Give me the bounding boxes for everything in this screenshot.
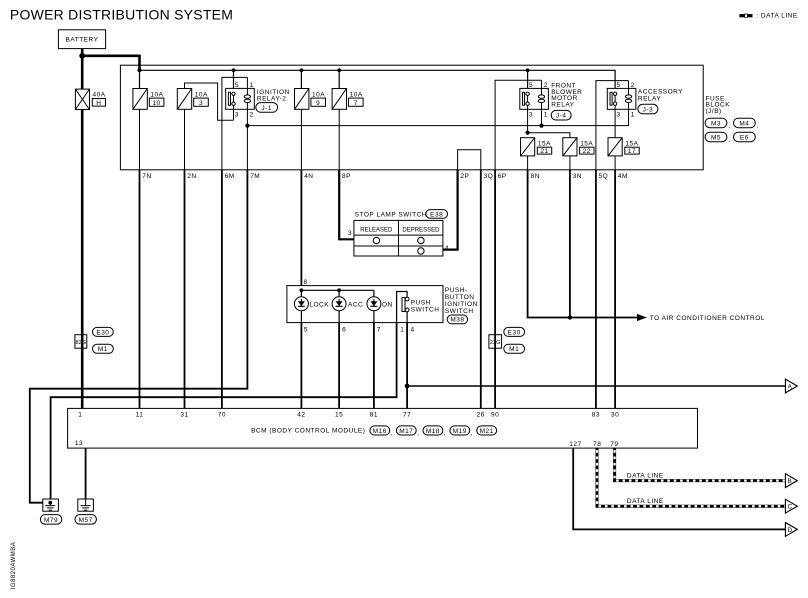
svg-text:10A: 10A	[150, 91, 163, 98]
svg-text:15A: 15A	[625, 140, 638, 147]
svg-text:SWITCH: SWITCH	[411, 307, 440, 314]
svg-text:IGNITION: IGNITION	[445, 301, 478, 308]
connector oval M18	[423, 426, 446, 437]
wire fuse 10 to 7N exit	[139, 109, 141, 170]
svg-text:STOP LAMP SWITCH: STOP LAMP SWITCH	[355, 211, 427, 218]
node pin 4 at arrow A line	[405, 384, 410, 389]
svg-text:3N: 3N	[573, 173, 582, 180]
svg-text:M1: M1	[98, 346, 108, 353]
svg-text:79: 79	[610, 441, 618, 448]
wire stop lamp pin 4 to 2P	[443, 170, 458, 250]
svg-text:M18: M18	[426, 428, 440, 435]
ground M79	[43, 499, 59, 511]
svg-text:7M: 7M	[250, 173, 260, 180]
connector oval M21	[477, 426, 497, 435]
svg-text:E30: E30	[508, 329, 521, 336]
svg-text:5: 5	[529, 82, 533, 89]
svg-text:M17: M17	[399, 428, 413, 435]
svg-text:J-4: J-4	[556, 113, 567, 120]
svg-text:1: 1	[250, 82, 254, 89]
wire bus drop to ignition relay pin 5	[233, 70, 235, 93]
svg-text:30: 30	[611, 412, 619, 419]
wire battery to BCM pin 1	[81, 110, 84, 409]
node blower relay pin 1 on control line	[539, 124, 543, 128]
svg-text:C: C	[788, 504, 793, 511]
svg-text:PUSH: PUSH	[411, 300, 431, 307]
node bus at fuse 7	[337, 68, 341, 72]
svg-text:1: 1	[400, 326, 404, 333]
connector oval M17	[396, 426, 419, 437]
svg-text:B: B	[788, 478, 792, 485]
wire fuse 22 to 3N exit	[569, 156, 571, 170]
svg-text:,: ,	[728, 137, 730, 144]
arrowhead C	[785, 499, 797, 513]
svg-text:E38: E38	[430, 211, 443, 218]
connector oval M4	[734, 118, 760, 129]
wire 3Q to BCM 26	[480, 170, 482, 409]
svg-text:SWITCH: SWITCH	[445, 308, 474, 315]
wire 4M to BCM 30	[614, 170, 616, 409]
label ignition relay-2	[257, 89, 290, 103]
svg-text:5: 5	[235, 82, 239, 89]
front blower motor relay coil jog to 6P	[495, 80, 541, 170]
svg-text:3: 3	[199, 100, 203, 107]
diode LOCK	[294, 290, 329, 322]
ignition relay-2 coil feed jog to 6M	[222, 77, 248, 169]
wire BCM 13 to ground M57	[85, 448, 87, 499]
wire bus drop to fuse 7	[338, 70, 340, 88]
svg-text:10A: 10A	[312, 91, 325, 98]
svg-text:2: 2	[250, 111, 254, 118]
svg-text:15A: 15A	[538, 140, 551, 147]
fuse 10A #7	[332, 89, 363, 110]
connector oval M1 (23G)	[504, 344, 525, 353]
label front blower motor relay	[551, 83, 582, 109]
svg-text:3: 3	[529, 111, 533, 118]
svg-text:(J/B): (J/B)	[706, 108, 722, 115]
svg-text:8N: 8N	[531, 173, 540, 180]
svg-text:5: 5	[304, 326, 308, 333]
svg-text:DATA LINE: DATA LINE	[627, 498, 664, 505]
wire fuse 9 to 4N exit	[300, 109, 302, 170]
svg-text:M79: M79	[44, 517, 58, 524]
svg-text:1: 1	[544, 111, 548, 118]
wire BCM 79 data line to connector B	[615, 448, 786, 481]
svg-text:8P: 8P	[342, 173, 351, 180]
svg-text:LOCK: LOCK	[309, 301, 329, 308]
node battery junction	[79, 53, 85, 59]
node ignition relay pin 2 on control line	[245, 124, 249, 128]
svg-text:DATA LINE: DATA LINE	[627, 472, 664, 479]
svg-text:ON: ON	[382, 301, 393, 308]
node bus at fuse 9	[300, 68, 304, 72]
svg-text:M21: M21	[480, 428, 494, 435]
node bus entry	[138, 68, 142, 72]
svg-text:,: ,	[471, 430, 473, 437]
wire pin 5 to BCM 42	[300, 323, 302, 409]
diode ON	[367, 290, 393, 322]
svg-text:15A: 15A	[580, 140, 593, 147]
arrowhead D	[785, 523, 797, 537]
svg-text:M3: M3	[711, 120, 721, 127]
svg-text:13: 13	[75, 440, 83, 447]
connector oval M57	[75, 515, 96, 525]
wire blower output jog to fuse 22	[528, 133, 570, 138]
wire 8N to A/C control line	[528, 170, 638, 318]
svg-text:BCM (BODY CONTROL MODULE): BCM (BODY CONTROL MODULE)	[251, 428, 365, 435]
svg-text:22: 22	[583, 148, 591, 155]
wire to connector A	[407, 385, 785, 387]
connector oval M3	[705, 118, 731, 129]
svg-text:M4: M4	[739, 120, 749, 127]
fuse 15A #21	[521, 138, 552, 156]
svg-text:DEPRESSED: DEPRESSED	[402, 228, 440, 234]
svg-text:BUTTON: BUTTON	[445, 294, 475, 301]
svg-text:83: 83	[592, 412, 600, 419]
connector oval J-1	[256, 103, 278, 113]
wire battery feed to bus	[82, 49, 139, 70]
svg-text:31: 31	[180, 412, 188, 419]
svg-text:M38: M38	[450, 317, 464, 324]
svg-text:2: 2	[544, 82, 548, 89]
svg-text:10A: 10A	[350, 91, 363, 98]
wire pin 4 to BCM 77	[406, 323, 408, 409]
wire 4N to push-button pin 8	[300, 170, 302, 286]
connector oval E30 (82G)	[93, 327, 114, 336]
svg-text:E6: E6	[740, 134, 749, 141]
svg-text:3Q: 3Q	[484, 173, 494, 180]
svg-text:4M: 4M	[618, 173, 628, 180]
fuse 10A #3	[177, 89, 208, 110]
svg-text:D: D	[788, 527, 793, 534]
wire fuse 3 feed jog from relay output	[185, 83, 234, 120]
wire pin 6 to BCM 15	[338, 323, 340, 409]
svg-text:4: 4	[445, 245, 449, 252]
svg-text:6M: 6M	[225, 173, 235, 180]
push-button ignition switch M38 box	[287, 286, 443, 323]
wire 6M to BCM 70	[221, 170, 223, 409]
stop lamp switch E38	[348, 210, 449, 256]
svg-text:6P: 6P	[498, 173, 507, 180]
wire bus drop to fuse 10	[139, 70, 141, 88]
node bus at blower relay pin 5	[526, 68, 530, 72]
ground M57	[78, 499, 94, 511]
op front blower motor relay body	[520, 80, 549, 133]
svg-text:RELAY-2: RELAY-2	[257, 96, 287, 103]
arrowhead to air conditioner control	[637, 314, 647, 321]
arrowhead B	[785, 474, 797, 488]
svg-text:3: 3	[348, 230, 352, 237]
svg-text:82G: 82G	[76, 340, 87, 346]
wire 3N to A/C junction	[569, 170, 571, 318]
svg-text:: DATA LINE: : DATA LINE	[756, 13, 798, 20]
connector oval M38	[447, 315, 467, 324]
accessory relay coil jog to 5Q	[596, 81, 629, 170]
wire 8P to stop lamp switch pin 3	[339, 170, 354, 240]
svg-text:,: ,	[391, 430, 393, 437]
wire 7M to ground run	[30, 170, 248, 503]
battery	[58, 30, 105, 49]
svg-text:H: H	[96, 100, 101, 107]
svg-text:11: 11	[136, 412, 144, 419]
wire fuse 17 to 4M exit	[614, 156, 616, 170]
fuse 15A #17	[608, 138, 639, 156]
svg-text:15: 15	[335, 412, 343, 419]
wire 6P to BCM 90	[494, 170, 496, 409]
svg-text:M1: M1	[509, 346, 519, 353]
svg-text:IG8820AWMBA: IG8820AWMBA	[11, 542, 17, 590]
svg-text:90: 90	[491, 412, 499, 419]
wire 7M exit stub	[246, 126, 248, 170]
svg-text:J-3: J-3	[643, 107, 654, 114]
op ignition relay-2 body	[226, 77, 255, 125]
svg-text:RELEASED: RELEASED	[360, 228, 393, 234]
fuse 15A #22	[563, 138, 594, 156]
svg-text:4: 4	[411, 326, 415, 333]
fuse block J/B outline	[120, 65, 703, 170]
svg-text:,: ,	[757, 123, 759, 130]
diode ACC	[332, 290, 363, 322]
fuse 10A #9	[295, 89, 326, 110]
BCM body control module box	[68, 408, 698, 448]
arrowhead A	[785, 379, 797, 393]
svg-text:BATTERY: BATTERY	[66, 37, 99, 44]
svg-text:9: 9	[316, 100, 320, 107]
svg-text:42: 42	[297, 412, 305, 419]
node bus at ignition relay pin 5	[232, 68, 236, 72]
svg-text:78: 78	[593, 441, 601, 448]
op accessory relay body	[607, 81, 636, 138]
node bus at ACC diode	[337, 288, 341, 292]
svg-text:81: 81	[370, 412, 378, 419]
svg-text:8: 8	[304, 279, 308, 286]
svg-text:40A: 40A	[93, 92, 106, 99]
wire battery down-feed	[81, 56, 84, 89]
svg-text:6: 6	[342, 326, 346, 333]
svg-text:77: 77	[403, 412, 411, 419]
label push-button ignition switch	[445, 287, 478, 315]
wire fuse 3 to 2N exit	[184, 109, 186, 170]
connector oval M16	[370, 426, 393, 437]
svg-text:J-1: J-1	[261, 105, 272, 112]
label accessory relay	[638, 89, 683, 103]
connector oval J-3	[638, 104, 658, 114]
wire pin 1 to ground run	[51, 323, 397, 503]
svg-text:1: 1	[631, 111, 635, 118]
svg-text:M57: M57	[79, 517, 93, 524]
svg-text:3: 3	[617, 111, 621, 118]
connector 82G	[75, 335, 87, 349]
svg-text:5: 5	[617, 82, 621, 89]
fusible link H 40A	[75, 89, 105, 109]
svg-text:E30: E30	[96, 329, 109, 336]
svg-text:21: 21	[540, 148, 548, 155]
wire pin 7 to BCM 81	[373, 323, 375, 409]
connector oval M5	[705, 132, 731, 143]
svg-text:,: ,	[417, 430, 419, 437]
wire fuse 21 to 8N exit	[527, 156, 529, 170]
wire fuse 7 to 8P exit	[338, 109, 340, 170]
svg-text:2: 2	[631, 82, 635, 89]
svg-text:1: 1	[78, 412, 82, 419]
wire bus drop to blower relay pin 5	[527, 70, 529, 93]
wire relay coil control line	[247, 103, 628, 126]
fuse 10A #10	[133, 89, 164, 110]
svg-text:RELAY: RELAY	[551, 101, 574, 108]
svg-text:,: ,	[728, 123, 730, 130]
svg-text:M19: M19	[453, 428, 467, 435]
connector oval M19	[450, 426, 473, 437]
connector oval J-4	[551, 110, 571, 120]
connector oval E30 (23G)	[504, 327, 525, 336]
svg-text:4N: 4N	[304, 173, 313, 180]
svg-text:17: 17	[628, 148, 636, 155]
connector oval M79	[40, 515, 61, 525]
wire BCM 127 to connector D	[573, 448, 785, 529]
svg-text:TO AIR CONDITIONER CONTROL: TO AIR CONDITIONER CONTROL	[650, 315, 765, 322]
bus bar from battery	[140, 70, 616, 93]
svg-text:ACC: ACC	[348, 301, 363, 308]
svg-text:127: 127	[569, 441, 581, 448]
svg-text:26: 26	[477, 412, 485, 419]
node 3N on A/C line	[568, 315, 572, 319]
svg-text:2P: 2P	[460, 173, 469, 180]
svg-text:3: 3	[235, 111, 239, 118]
svg-text:,: ,	[444, 430, 446, 437]
wire 5Q to BCM 83	[595, 170, 597, 409]
legend data line symbol	[739, 13, 797, 20]
svg-text:10: 10	[152, 100, 160, 107]
svg-text:PUSH-: PUSH-	[445, 287, 468, 294]
svg-text:7: 7	[354, 100, 358, 107]
svg-text:7: 7	[377, 326, 381, 333]
svg-text:10A: 10A	[195, 91, 208, 98]
connector oval M1 (82G)	[93, 344, 114, 353]
wire diode bus	[301, 289, 374, 291]
svg-text:M5: M5	[711, 134, 721, 141]
svg-text:5Q: 5Q	[599, 173, 609, 180]
push switch	[397, 292, 440, 323]
wire 2N to BCM 31	[184, 170, 186, 409]
svg-text:70: 70	[218, 412, 226, 419]
svg-text:2N: 2N	[187, 173, 196, 180]
svg-text:POWER DISTRIBUTION SYSTEM: POWER DISTRIBUTION SYSTEM	[10, 7, 233, 23]
label fuse block J/B	[706, 95, 731, 115]
wire 7N to BCM 11	[139, 170, 141, 409]
wire 2P-3Q jumper in block	[458, 150, 481, 170]
connector oval E6	[734, 132, 756, 142]
svg-text:M16: M16	[373, 428, 387, 435]
connector 23G	[489, 335, 502, 349]
wire BCM 78 data line to connector C	[597, 448, 785, 506]
node bus at LOCK diode	[300, 288, 304, 292]
node blower relay pin 3 output	[526, 131, 530, 135]
svg-text:7N: 7N	[142, 173, 151, 180]
wire bus drop to fuse 9	[300, 70, 302, 88]
svg-text:RELAY: RELAY	[638, 95, 661, 102]
